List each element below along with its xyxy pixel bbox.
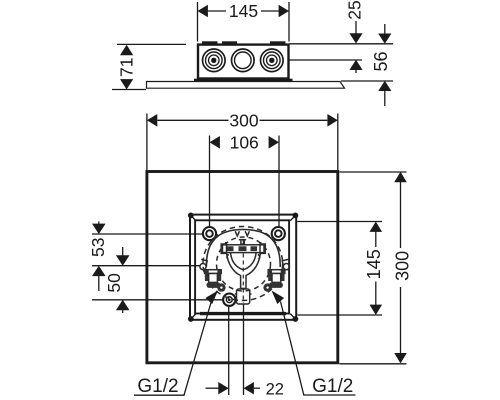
- svg-text:22: 22: [266, 380, 284, 398]
- svg-text:145: 145: [364, 249, 384, 279]
- svg-text:56: 56: [371, 51, 391, 71]
- svg-text:71: 71: [117, 58, 137, 77]
- svg-text:300: 300: [392, 251, 412, 281]
- svg-text:G1/2: G1/2: [137, 376, 178, 397]
- svg-text:145: 145: [229, 1, 258, 21]
- svg-text:53: 53: [88, 238, 108, 257]
- svg-text:G1/2: G1/2: [312, 376, 353, 397]
- svg-text:50: 50: [104, 273, 124, 293]
- svg-text:300: 300: [229, 110, 258, 130]
- svg-text:106: 106: [230, 132, 259, 152]
- svg-text:25: 25: [345, 0, 365, 19]
